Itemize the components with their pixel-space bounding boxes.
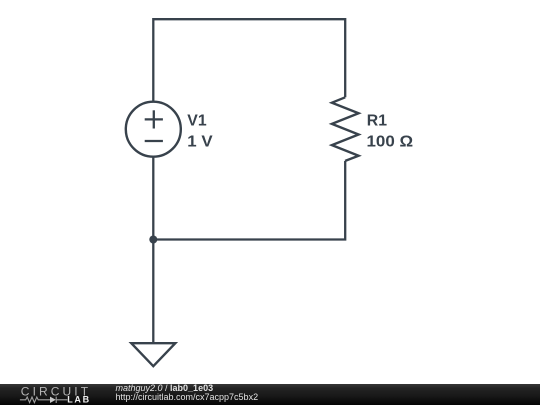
node junction dot <box>149 236 157 244</box>
voltage source V1 (circle) <box>126 102 181 157</box>
logo diode triangle <box>50 397 56 403</box>
svg-text:1 V: 1 V <box>187 134 213 151</box>
resistor R1 (zigzag) <box>332 97 359 161</box>
CircuitLab logo: resistor-diode glyph <box>20 397 68 403</box>
footer bar <box>0 384 540 405</box>
svg-text:V1: V1 <box>187 113 207 130</box>
svg-text:R1: R1 <box>367 113 387 130</box>
svg-text:100 Ω: 100 Ω <box>367 134 414 151</box>
wire: top rail and side drops (left from V1 top, across top, right to R1 top) <box>153 19 345 101</box>
ground symbol <box>131 343 175 366</box>
V1 plus sign <box>145 110 163 128</box>
svg-text:http://circuitlab.com/cx7acpp7: http://circuitlab.com/cx7acpp7c5bx2 <box>116 392 259 402</box>
wire: bottom rail from node up right side to R1 bottom <box>153 161 345 240</box>
V1 minus sign <box>145 140 163 142</box>
wire: V1 bottom down to ground <box>152 157 154 343</box>
svg-text:LAB: LAB <box>67 395 91 405</box>
